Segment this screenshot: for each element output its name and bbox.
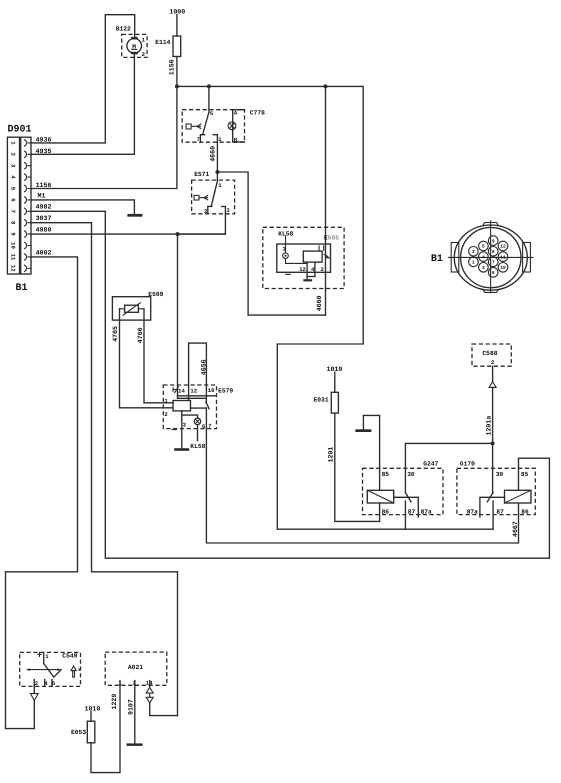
svg-text:1010: 1010	[85, 705, 101, 712]
svg-text:9: 9	[492, 238, 495, 244]
E585 inner module box	[277, 244, 331, 272]
switch C549	[20, 652, 81, 687]
E585 ground	[303, 279, 312, 281]
wire 4002 D901-11 to C549-2	[6, 249, 78, 728]
svg-text:10: 10	[208, 387, 215, 394]
control unit A021	[105, 652, 167, 686]
svg-text:7: 7	[492, 260, 495, 266]
svg-text:4667: 4667	[512, 521, 519, 537]
svg-text:87: 87	[408, 509, 416, 516]
fuse E031	[314, 392, 339, 413]
svg-text:4982: 4982	[36, 204, 52, 211]
E571 contact seat pin 3	[222, 206, 226, 208]
E571 actuator symbol	[194, 195, 208, 200]
E571 contact seat pin 2	[208, 206, 212, 213]
svg-text:87: 87	[496, 509, 504, 516]
C549 lever symbol	[71, 666, 76, 677]
svg-text:4936: 4936	[36, 137, 52, 144]
C778 lamp compartment	[233, 110, 245, 142]
C549 switch blade	[44, 664, 61, 678]
svg-text:4765: 4765	[112, 326, 119, 342]
svg-text:3037: 3037	[36, 215, 52, 222]
C778 contact seat pins 7/1	[200, 135, 217, 143]
wire 3037 D901-8 to A021-14	[31, 215, 178, 715]
C549 actuate arrow top	[38, 652, 41, 656]
relay G247	[363, 461, 444, 516]
fuse E114	[155, 36, 180, 57]
svg-text:A021: A021	[128, 664, 143, 671]
E579 pin 14 tick	[173, 387, 178, 393]
svg-text:87a: 87a	[467, 509, 478, 516]
motor B122	[116, 26, 147, 59]
E579 lamp KL58	[190, 418, 205, 450]
E585 indicator symbol pin1	[283, 253, 289, 259]
junction dot 4660 at E571	[215, 170, 219, 174]
wire 4765 E509 to E579-2	[112, 309, 173, 408]
svg-text:12: 12	[299, 266, 306, 273]
svg-text:8: 8	[9, 221, 16, 225]
wire 4935 D901-2 to B122-2	[31, 54, 134, 155]
fuse E053	[71, 721, 95, 743]
ground near E031 for G247-85	[355, 415, 379, 490]
wire node to G247-30	[405, 443, 492, 492]
E585 minus mark	[286, 273, 290, 275]
svg-text:G247: G247	[423, 461, 438, 468]
svg-text:M1: M1	[38, 193, 46, 200]
G247 switch blade 30-87	[405, 493, 411, 502]
svg-text:3: 3	[9, 164, 16, 168]
E585 pin 1 lead	[282, 236, 286, 253]
svg-text:E053: E053	[71, 729, 86, 736]
svg-text:2: 2	[9, 153, 16, 157]
connector B1 (round view)	[431, 221, 533, 293]
svg-text:1229: 1229	[111, 694, 118, 710]
E585 internal wire to pin 12	[286, 259, 308, 264]
wire 1201 E031 to G247-86	[328, 413, 380, 521]
svg-text:11: 11	[9, 254, 16, 261]
svg-text:85: 85	[382, 471, 390, 478]
svg-text:11: 11	[500, 254, 506, 260]
D901 contact sockets	[24, 140, 31, 272]
svg-text:3: 3	[183, 422, 187, 429]
svg-text:6: 6	[492, 270, 495, 276]
E579 pin 3 ground wire	[181, 411, 183, 448]
svg-text:4002: 4002	[36, 249, 52, 256]
control unit E579	[163, 385, 233, 429]
connector D901 housing	[7, 125, 31, 295]
E579 lamp tap wire	[182, 415, 198, 418]
G247 coil	[367, 490, 393, 503]
svg-text:1201: 1201	[328, 447, 335, 463]
E571 pin 3 wire to 4980 node	[178, 207, 226, 235]
wire 4982 D901-7 to relay G170-85	[31, 204, 549, 559]
G170 switch blade 30-87	[487, 493, 493, 502]
wire 1156 D901-5 to fuse E114	[31, 57, 177, 190]
svg-text:1: 1	[218, 182, 222, 189]
svg-text:G170: G170	[460, 461, 475, 468]
svg-text:8: 8	[492, 249, 495, 255]
svg-text:C588: C588	[482, 350, 497, 357]
svg-text:A: A	[234, 109, 238, 116]
E585 ground link	[307, 277, 315, 280]
sensor E509	[112, 291, 163, 320]
C549 side arrow	[79, 668, 82, 671]
svg-text:B1: B1	[16, 283, 28, 294]
svg-text:2: 2	[472, 249, 475, 255]
svg-text:C778: C778	[250, 109, 265, 116]
C778 switch blade 5-7	[203, 113, 209, 135]
svg-text:5: 5	[210, 110, 214, 117]
B1 pin circles	[469, 236, 508, 277]
junction dot 1201a node	[491, 441, 495, 445]
svg-text:B122: B122	[116, 26, 131, 33]
switch C778	[182, 109, 265, 142]
wire 4656 loop E579-12 to E579-10	[189, 343, 208, 402]
svg-text:4935: 4935	[36, 148, 52, 155]
svg-text:4: 4	[482, 254, 485, 260]
C588 pin 2 wire with splice	[485, 366, 496, 492]
wire 4667 E579-7 to G170-86	[206, 408, 519, 543]
svg-text:C549: C549	[62, 653, 77, 660]
svg-text:E031: E031	[314, 397, 329, 404]
svg-text:14: 14	[178, 388, 185, 395]
svg-text:1156: 1156	[36, 182, 52, 189]
svg-text:7: 7	[9, 210, 16, 213]
svg-text:2: 2	[491, 359, 495, 366]
svg-text:6: 6	[9, 198, 16, 202]
wire M1 D901-6 to ground	[31, 193, 134, 214]
wire bus drop to C778 pin 5	[208, 86, 210, 113]
svg-text:5: 5	[9, 187, 16, 191]
svg-text:9: 9	[9, 232, 16, 236]
svg-text:7: 7	[197, 136, 200, 143]
svg-text:86: 86	[521, 509, 529, 516]
wire 4980 D901-9 to E579-14 and E571-3	[31, 227, 225, 399]
svg-text:1201a: 1201a	[485, 416, 492, 436]
svg-text:1: 1	[142, 36, 146, 43]
E579 inner module	[173, 401, 191, 411]
svg-text:1010: 1010	[327, 366, 343, 373]
svg-text:2: 2	[164, 411, 168, 418]
svg-text:B1: B1	[431, 254, 443, 265]
svg-text:4980: 4980	[36, 227, 52, 234]
svg-text:9107: 9107	[128, 699, 135, 715]
E585 pin 12	[299, 262, 307, 276]
svg-text:4: 4	[9, 175, 16, 179]
C549 pin ticks 2 4 6	[34, 680, 52, 687]
svg-text:86: 86	[382, 509, 390, 516]
relay box E585	[263, 227, 344, 288]
E579 minus mark	[172, 429, 176, 431]
svg-text:30: 30	[407, 471, 415, 478]
svg-text:1156: 1156	[168, 59, 175, 75]
svg-text:4660: 4660	[316, 295, 323, 311]
svg-text:12: 12	[9, 265, 16, 272]
wire 1010 into E053	[85, 705, 101, 721]
wire 9107 A021-2 to ground	[128, 685, 135, 743]
svg-text:85: 85	[521, 471, 529, 478]
E585 switch arrow	[324, 254, 329, 258]
svg-text:87a: 87a	[421, 509, 432, 516]
E579 switch seat	[191, 407, 207, 409]
C778 indicator lamp	[228, 122, 236, 130]
wire 4936 D901-1 to B122-1	[31, 15, 135, 144]
G170 coil	[505, 490, 532, 503]
C778 lamp pins A B	[234, 109, 238, 143]
E585 relay coil	[303, 251, 322, 262]
wire 1010 into E031	[327, 366, 343, 392]
ground for M1	[127, 214, 142, 217]
wire 1229 A021-1 to fuse E053	[91, 685, 120, 772]
svg-text:1: 1	[472, 260, 475, 266]
svg-text:3: 3	[226, 207, 230, 214]
junction dot bus at C778	[207, 84, 211, 88]
E579 ground	[174, 448, 189, 451]
svg-text:30: 30	[496, 471, 504, 478]
wire bus drop through E585 pin 2	[325, 86, 327, 315]
svg-text:10: 10	[9, 242, 16, 249]
D901 pin numbers 1-12	[9, 141, 16, 272]
svg-text:4656: 4656	[201, 359, 208, 375]
connector C588	[472, 344, 511, 366]
wire 4660 C778-1 to E571-1 and E585-2	[210, 135, 326, 315]
E579 switch blade 10-7	[206, 402, 209, 409]
junction dot bus at E114	[175, 84, 179, 88]
svg-text:D901: D901	[8, 125, 32, 136]
E585 pin 4	[311, 262, 315, 276]
svg-text:7: 7	[208, 422, 211, 429]
svg-text:KL58: KL58	[190, 443, 205, 450]
E571 switch blade 1-2	[211, 181, 217, 206]
C549 travel arrows	[26, 668, 60, 671]
E585 contact ticks	[319, 246, 324, 250]
junction dot bus at E585	[324, 84, 328, 88]
svg-text:6: 6	[202, 423, 206, 430]
C778 actuator symbol	[186, 124, 201, 129]
C549 pin 2 splice triangle	[30, 686, 38, 700]
wire 1000 into E114	[169, 8, 185, 36]
svg-text:4660: 4660	[210, 146, 217, 162]
svg-text:E571: E571	[194, 171, 209, 178]
svg-text:3: 3	[482, 265, 485, 271]
svg-text:1: 1	[45, 653, 49, 660]
svg-text:1: 1	[9, 141, 16, 145]
svg-text:E579: E579	[218, 388, 233, 395]
svg-text:1000: 1000	[169, 8, 185, 15]
svg-text:12: 12	[500, 244, 506, 250]
A021 pin 14 double splice	[146, 685, 177, 715]
G170 contact 87a	[480, 497, 505, 517]
svg-text:E585: E585	[324, 234, 339, 241]
switch E571	[192, 171, 235, 215]
svg-text:5: 5	[482, 244, 485, 250]
junction dot 4980	[176, 232, 180, 236]
svg-text:4766: 4766	[137, 327, 144, 343]
bus 1156 horizontal and feed to relays	[177, 86, 493, 529]
C549 pin 1 contact	[43, 652, 45, 663]
relay G170	[457, 461, 535, 516]
svg-text:E114: E114	[155, 39, 170, 46]
wire 4766 E509 to E579-1	[137, 309, 173, 403]
G170 pin 87 wire	[492, 501, 494, 529]
svg-text:12: 12	[190, 388, 197, 395]
G247 pin 87 wire	[404, 501, 406, 529]
G247 contact 87a	[394, 497, 419, 517]
ground for A021-2	[127, 743, 143, 746]
svg-text:10: 10	[500, 265, 506, 271]
